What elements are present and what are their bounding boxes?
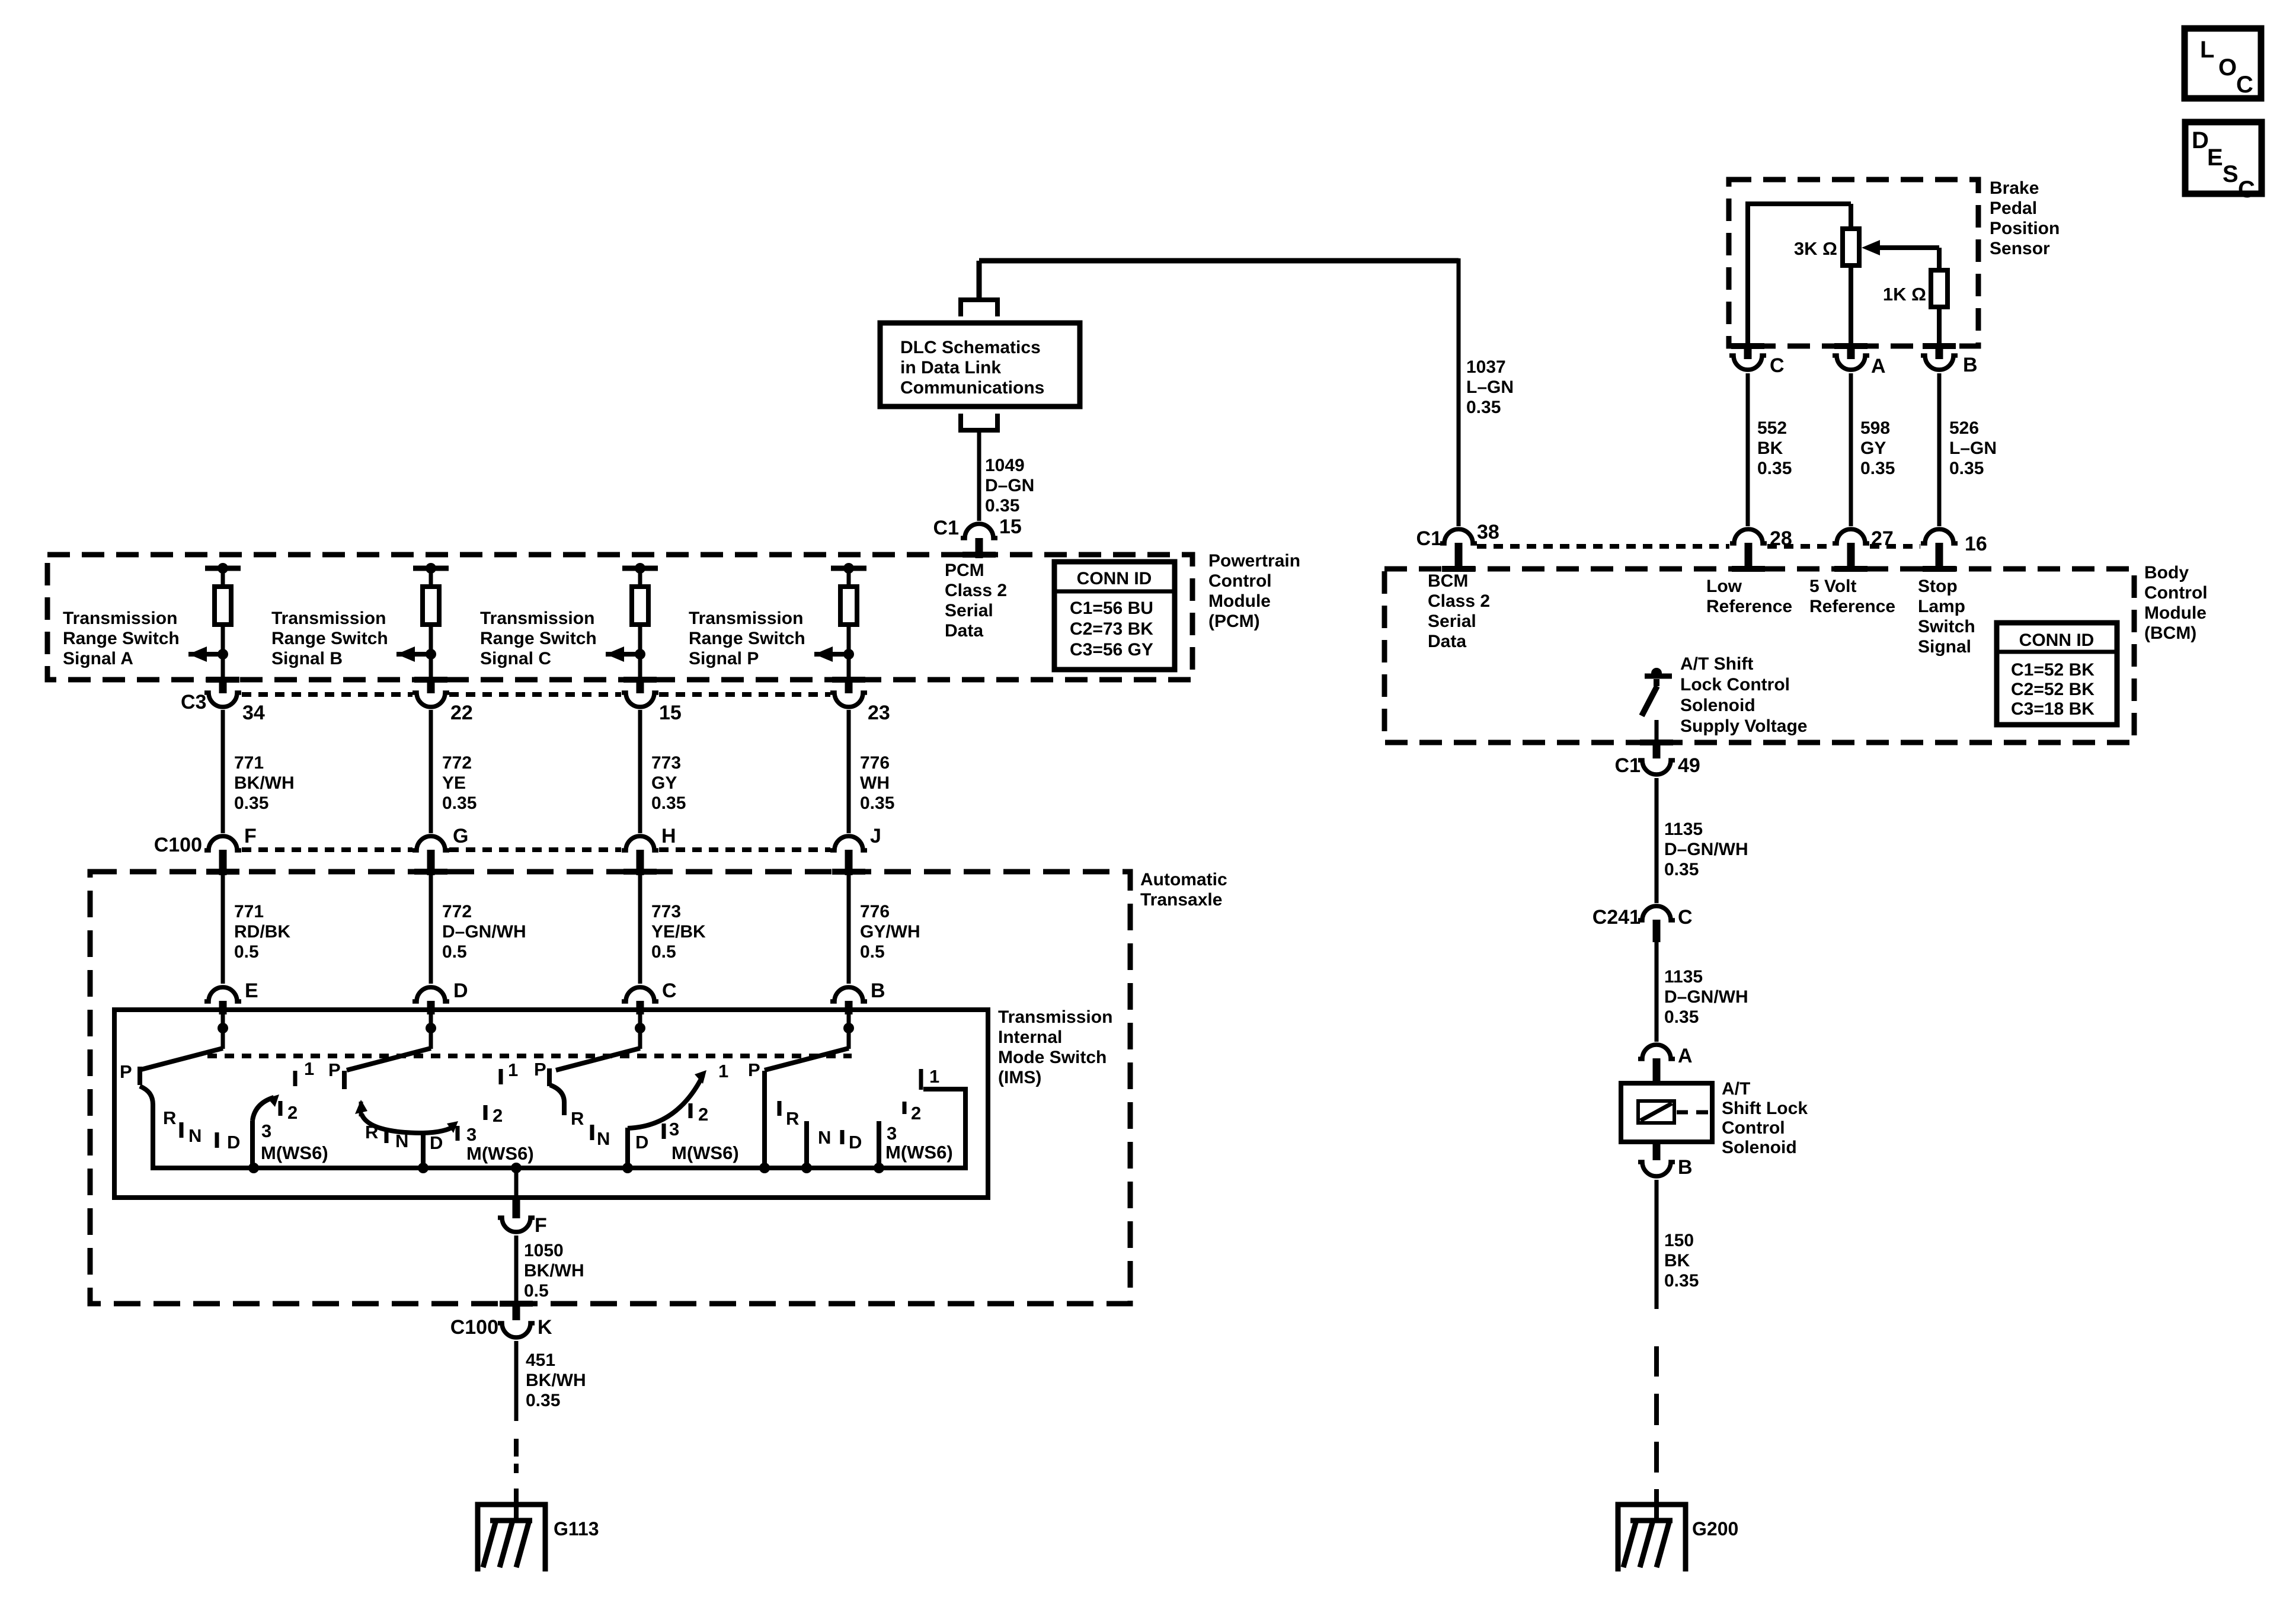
- svg-text:D–GN: D–GN: [985, 476, 1034, 495]
- svg-text:Solenoid: Solenoid: [1722, 1138, 1797, 1157]
- svg-text:Communications: Communications: [900, 378, 1044, 398]
- svg-text:Powertrain: Powertrain: [1208, 551, 1300, 571]
- svg-text:D–GN/WH: D–GN/WH: [1664, 840, 1748, 859]
- svg-text:772: 772: [442, 753, 472, 773]
- svg-text:Control: Control: [1208, 571, 1272, 591]
- svg-text:D: D: [635, 1132, 648, 1153]
- svg-text:Automatic: Automatic: [1140, 870, 1227, 889]
- svg-text:BK/WH: BK/WH: [524, 1261, 584, 1281]
- svg-text:C: C: [662, 980, 677, 1002]
- svg-text:GY/WH: GY/WH: [860, 922, 920, 942]
- svg-text:C1=56 BU: C1=56 BU: [1070, 598, 1153, 618]
- svg-text:in Data Link: in Data Link: [900, 358, 1001, 377]
- svg-text:1: 1: [508, 1060, 518, 1080]
- svg-text:D–GN/WH: D–GN/WH: [1664, 987, 1748, 1007]
- svg-text:CONN ID: CONN ID: [2019, 630, 2094, 650]
- svg-text:0.35: 0.35: [985, 496, 1019, 516]
- svg-text:526: 526: [1949, 418, 1979, 438]
- svg-text:C1: C1: [933, 517, 959, 539]
- svg-text:Signal: Signal: [1918, 637, 1971, 657]
- svg-text:776: 776: [860, 753, 890, 773]
- svg-text:P: P: [534, 1059, 546, 1080]
- svg-text:Control: Control: [2144, 583, 2208, 603]
- svg-text:34: 34: [242, 702, 265, 724]
- svg-text:0.35: 0.35: [1664, 860, 1699, 879]
- svg-text:1135: 1135: [1664, 820, 1703, 839]
- svg-text:N: N: [395, 1131, 408, 1151]
- svg-text:M(WS6): M(WS6): [261, 1142, 328, 1163]
- svg-text:0.5: 0.5: [442, 942, 467, 962]
- svg-text:Sensor: Sensor: [1990, 239, 2050, 258]
- svg-text:(IMS): (IMS): [998, 1068, 1041, 1087]
- svg-text:RD/BK: RD/BK: [234, 922, 290, 942]
- svg-text:BK/WH: BK/WH: [526, 1371, 586, 1390]
- svg-text:773: 773: [651, 902, 681, 921]
- svg-text:S: S: [2223, 161, 2239, 187]
- svg-text:L–GN: L–GN: [1466, 377, 1514, 397]
- svg-text:Serial: Serial: [1428, 612, 1476, 631]
- svg-text:1135: 1135: [1664, 967, 1703, 987]
- svg-text:C100: C100: [154, 834, 202, 856]
- svg-text:Range Switch: Range Switch: [689, 629, 805, 648]
- svg-text:C1: C1: [1615, 754, 1641, 777]
- svg-text:PCM: PCM: [945, 561, 984, 580]
- svg-text:772: 772: [442, 902, 472, 921]
- svg-text:771: 771: [234, 902, 264, 921]
- svg-text:O: O: [2218, 55, 2237, 81]
- svg-text:C: C: [2238, 177, 2255, 203]
- svg-text:0.35: 0.35: [1860, 459, 1895, 478]
- svg-text:M(WS6): M(WS6): [671, 1142, 739, 1163]
- svg-text:Pedal: Pedal: [1990, 199, 2037, 218]
- svg-text:Reference: Reference: [1706, 597, 1792, 616]
- svg-text:YE/BK: YE/BK: [651, 922, 706, 942]
- svg-text:2: 2: [287, 1102, 298, 1123]
- svg-text:0.35: 0.35: [860, 793, 894, 813]
- svg-text:D: D: [453, 980, 468, 1002]
- svg-text:Class 2: Class 2: [945, 581, 1007, 600]
- svg-text:0.35: 0.35: [234, 793, 268, 813]
- svg-text:3: 3: [669, 1119, 679, 1140]
- svg-text:Lamp: Lamp: [1918, 597, 1965, 616]
- svg-text:B: B: [1678, 1156, 1693, 1179]
- svg-text:D: D: [227, 1132, 240, 1153]
- svg-text:16: 16: [1965, 533, 1987, 555]
- svg-text:C2=52 BK: C2=52 BK: [2011, 680, 2094, 699]
- svg-text:1: 1: [718, 1061, 728, 1081]
- svg-text:G: G: [453, 825, 468, 847]
- svg-text:Signal P: Signal P: [689, 649, 759, 668]
- svg-text:G113: G113: [554, 1518, 599, 1539]
- svg-text:N: N: [597, 1128, 610, 1149]
- svg-text:E: E: [2207, 145, 2223, 171]
- svg-text:0.35: 0.35: [1466, 398, 1501, 417]
- svg-text:J: J: [870, 825, 881, 847]
- svg-text:1037: 1037: [1466, 357, 1506, 377]
- svg-text:D: D: [849, 1132, 862, 1153]
- svg-text:C2=73 BK: C2=73 BK: [1070, 619, 1153, 639]
- svg-text:0.5: 0.5: [234, 942, 259, 962]
- svg-text:Module: Module: [1208, 591, 1271, 611]
- svg-text:C: C: [2236, 72, 2253, 98]
- svg-text:BCM: BCM: [1428, 571, 1468, 591]
- svg-text:R: R: [786, 1108, 799, 1129]
- svg-text:Switch: Switch: [1918, 617, 1975, 636]
- svg-text:552: 552: [1757, 418, 1787, 438]
- svg-text:Class 2: Class 2: [1428, 591, 1490, 611]
- svg-text:Transaxle: Transaxle: [1140, 890, 1222, 910]
- svg-text:Stop: Stop: [1918, 577, 1958, 596]
- svg-text:Body: Body: [2144, 563, 2189, 582]
- svg-text:Transmission: Transmission: [271, 609, 386, 628]
- svg-text:773: 773: [651, 753, 681, 773]
- svg-text:BK/WH: BK/WH: [234, 773, 295, 793]
- svg-text:Range Switch: Range Switch: [480, 629, 597, 648]
- svg-text:15: 15: [659, 702, 682, 724]
- svg-text:3K Ω: 3K Ω: [1794, 238, 1837, 259]
- svg-text:Position: Position: [1990, 219, 2060, 238]
- svg-text:M(WS6): M(WS6): [466, 1143, 534, 1164]
- svg-text:0.5: 0.5: [860, 942, 885, 962]
- svg-text:C: C: [1678, 906, 1693, 929]
- svg-text:Data: Data: [1428, 632, 1466, 651]
- svg-text:22: 22: [450, 702, 473, 724]
- svg-text:B: B: [1963, 354, 1978, 376]
- svg-text:Internal: Internal: [998, 1028, 1062, 1047]
- svg-text:A: A: [1871, 355, 1886, 377]
- svg-text:F: F: [244, 825, 257, 847]
- svg-text:2: 2: [493, 1105, 503, 1126]
- svg-text:B: B: [871, 980, 885, 1002]
- svg-text:Solenoid: Solenoid: [1680, 696, 1755, 715]
- svg-text:598: 598: [1860, 418, 1890, 438]
- svg-text:M(WS6): M(WS6): [885, 1142, 953, 1163]
- svg-text:27: 27: [1871, 527, 1894, 550]
- svg-text:Brake: Brake: [1990, 178, 2039, 198]
- svg-text:Transmission: Transmission: [480, 609, 594, 628]
- svg-text:A/T Shift: A/T Shift: [1680, 654, 1753, 674]
- svg-text:A/T: A/T: [1722, 1079, 1750, 1099]
- svg-text:C3=18 BK: C3=18 BK: [2011, 699, 2094, 719]
- svg-text:N: N: [818, 1127, 831, 1148]
- svg-text:Signal C: Signal C: [480, 649, 551, 668]
- svg-text:2: 2: [911, 1103, 921, 1124]
- svg-text:23: 23: [868, 702, 890, 724]
- svg-text:Mode Switch: Mode Switch: [998, 1048, 1107, 1067]
- svg-text:P: P: [748, 1060, 760, 1080]
- svg-text:Signal A: Signal A: [63, 649, 133, 668]
- svg-text:0.5: 0.5: [524, 1281, 549, 1301]
- svg-text:1: 1: [304, 1058, 314, 1079]
- svg-text:BK: BK: [1664, 1251, 1690, 1270]
- svg-text:WH: WH: [860, 773, 890, 793]
- svg-text:C3: C3: [181, 691, 206, 713]
- svg-text:CONN ID: CONN ID: [1077, 569, 1152, 588]
- svg-text:R: R: [571, 1108, 584, 1129]
- svg-text:C1=52 BK: C1=52 BK: [2011, 660, 2094, 680]
- svg-text:Low: Low: [1706, 577, 1742, 596]
- svg-text:5 Volt: 5 Volt: [1809, 577, 1856, 596]
- svg-text:0.5: 0.5: [651, 942, 676, 962]
- svg-text:N: N: [188, 1125, 202, 1146]
- svg-text:P: P: [120, 1061, 132, 1082]
- svg-text:Module: Module: [2144, 603, 2207, 623]
- svg-text:0.35: 0.35: [651, 793, 686, 813]
- svg-text:150: 150: [1664, 1231, 1694, 1250]
- svg-text:3: 3: [466, 1124, 477, 1145]
- svg-text:(BCM): (BCM): [2144, 623, 2196, 643]
- svg-text:1050: 1050: [524, 1241, 564, 1260]
- svg-text:(PCM): (PCM): [1208, 612, 1260, 631]
- svg-text:Lock Control: Lock Control: [1680, 675, 1790, 694]
- svg-text:38: 38: [1477, 521, 1499, 543]
- svg-text:Transmission: Transmission: [63, 609, 177, 628]
- svg-text:15: 15: [999, 516, 1022, 538]
- svg-text:F: F: [535, 1214, 547, 1237]
- svg-text:Transmission: Transmission: [998, 1007, 1112, 1027]
- svg-text:D: D: [430, 1132, 443, 1153]
- svg-text:Reference: Reference: [1809, 597, 1895, 616]
- svg-text:A: A: [1678, 1045, 1693, 1067]
- svg-text:YE: YE: [442, 773, 466, 793]
- svg-text:771: 771: [234, 753, 264, 773]
- svg-text:Data: Data: [945, 621, 983, 641]
- svg-text:Transmission: Transmission: [689, 609, 803, 628]
- svg-text:3: 3: [261, 1121, 271, 1141]
- svg-text:GY: GY: [1860, 438, 1886, 458]
- svg-text:C: C: [1770, 354, 1785, 377]
- svg-text:0.35: 0.35: [1757, 459, 1792, 478]
- svg-text:Signal B: Signal B: [271, 649, 343, 668]
- svg-text:1: 1: [929, 1066, 939, 1087]
- svg-text:0.35: 0.35: [1949, 459, 1984, 478]
- svg-text:L: L: [2200, 37, 2214, 63]
- svg-text:K: K: [538, 1316, 552, 1339]
- svg-text:C3=56 GY: C3=56 GY: [1070, 640, 1153, 660]
- svg-text:Control: Control: [1722, 1118, 1785, 1138]
- svg-text:0.35: 0.35: [1664, 1271, 1699, 1291]
- svg-text:D–GN/WH: D–GN/WH: [442, 922, 526, 942]
- svg-text:451: 451: [526, 1350, 555, 1370]
- svg-text:P: P: [328, 1060, 341, 1080]
- svg-text:1049: 1049: [985, 456, 1025, 475]
- svg-text:3: 3: [887, 1123, 897, 1144]
- svg-text:Range Switch: Range Switch: [63, 629, 180, 648]
- svg-text:G200: G200: [1692, 1518, 1738, 1539]
- svg-text:E: E: [245, 980, 258, 1002]
- svg-text:C241: C241: [1593, 906, 1641, 929]
- svg-text:GY: GY: [651, 773, 677, 793]
- svg-text:BK: BK: [1757, 438, 1783, 458]
- svg-text:Supply Voltage: Supply Voltage: [1680, 716, 1807, 736]
- svg-text:49: 49: [1678, 754, 1700, 777]
- svg-text:1K Ω: 1K Ω: [1883, 284, 1926, 305]
- svg-text:776: 776: [860, 902, 890, 921]
- svg-text:H: H: [661, 825, 676, 847]
- svg-text:C100: C100: [450, 1316, 498, 1339]
- svg-text:2: 2: [698, 1104, 708, 1125]
- svg-text:R: R: [163, 1108, 176, 1128]
- svg-text:Serial: Serial: [945, 601, 993, 620]
- svg-text:D: D: [2192, 127, 2209, 153]
- svg-text:DLC Schematics: DLC Schematics: [900, 338, 1041, 357]
- svg-text:C1: C1: [1416, 527, 1442, 550]
- svg-text:L–GN: L–GN: [1949, 438, 1997, 458]
- svg-text:0.35: 0.35: [1664, 1007, 1699, 1027]
- svg-text:0.35: 0.35: [442, 793, 477, 813]
- svg-text:0.35: 0.35: [526, 1391, 560, 1410]
- svg-text:Shift Lock: Shift Lock: [1722, 1099, 1808, 1118]
- svg-text:28: 28: [1770, 527, 1792, 550]
- svg-text:Range Switch: Range Switch: [271, 629, 388, 648]
